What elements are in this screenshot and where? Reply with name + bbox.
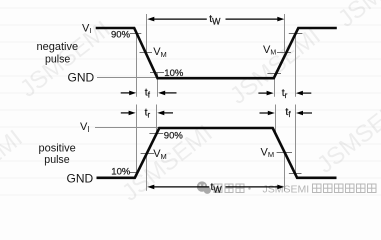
svg-text:90%: 90% [111,29,131,40]
svg-text:pulse: pulse [45,53,70,65]
svg-text:negative: negative [37,41,79,53]
svg-text:GND: GND [67,171,94,185]
svg-text:GND: GND [68,71,95,85]
svg-text:10%: 10% [111,166,131,177]
svg-text:pulse: pulse [44,154,69,166]
svg-text:JSMSEMI: JSMSEMI [263,184,310,196]
svg-text:10%: 10% [164,68,184,79]
svg-text:90%: 90% [164,131,184,142]
svg-text:positive: positive [39,142,76,154]
